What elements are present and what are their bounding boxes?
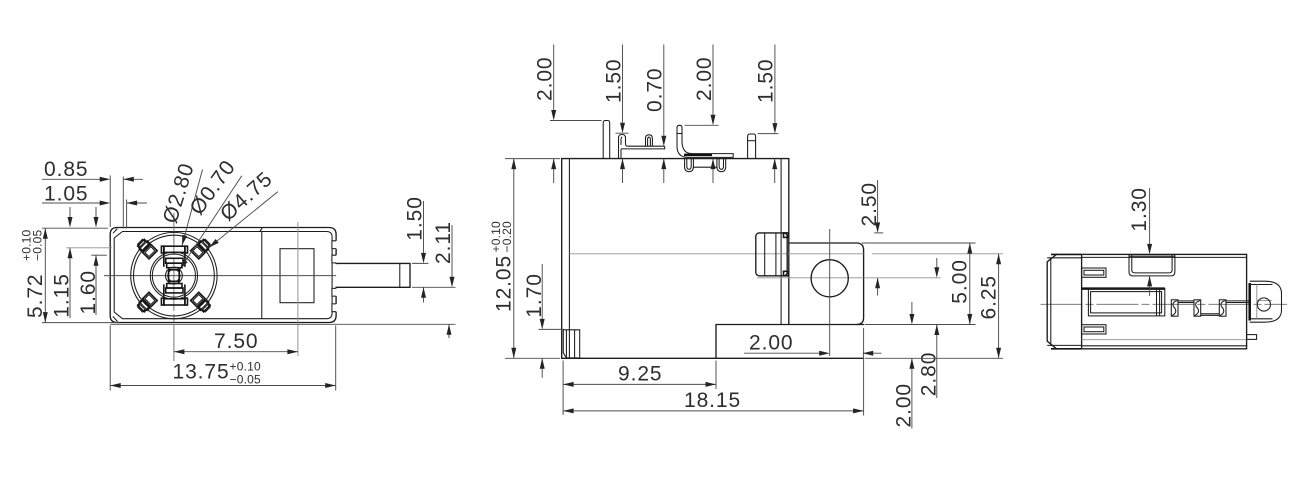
main body view3 [1082, 254, 1247, 348]
svg-text:2.50: 2.50 [858, 182, 881, 226]
dimension 1.50 top-left [602, 45, 628, 184]
dimension 7.50 [174, 222, 298, 356]
svg-text:5.00: 5.00 [949, 259, 972, 303]
bottom edge extension line [110, 323, 455, 325]
rectangular window right section [280, 249, 314, 303]
dimension 1.60 [77, 207, 107, 315]
mounting circle in arm [811, 260, 848, 297]
dimension 1.15 [50, 207, 112, 318]
horizontal centerline view1 [104, 275, 336, 277]
svg-text:−0.05: −0.05 [31, 230, 45, 261]
dimension 5.00 [949, 243, 973, 325]
svg-text:5.72: 5.72 [24, 274, 47, 318]
dimension 1.05 [42, 182, 147, 228]
svg-text:2.00: 2.00 [892, 383, 915, 427]
svg-text:+0.10: +0.10 [230, 360, 261, 374]
side pin (view1) [335, 263, 410, 287]
svg-text:2.11: 2.11 [432, 221, 455, 264]
bottom step [716, 325, 864, 359]
body right edge double [780, 159, 782, 325]
top pin D [748, 134, 756, 159]
dimension 1.50 top-right [755, 45, 779, 184]
body top edge [562, 158, 789, 160]
diagonal tab bottom-left [136, 292, 157, 313]
svg-text:9.25: 9.25 [618, 362, 662, 385]
top pin C with bend [677, 125, 733, 157]
svg-text:−0.20: −0.20 [500, 221, 514, 252]
barrel tip block [1250, 281, 1282, 322]
body outer outline [110, 228, 336, 323]
svg-text:2.00: 2.00 [749, 332, 793, 355]
svg-text:1.50: 1.50 [404, 196, 427, 240]
dimension 2.00 bottom (inside step) [744, 332, 882, 356]
svg-text:7.50: 7.50 [214, 330, 258, 353]
leader dia 0.70 [178, 156, 242, 271]
svg-text:2.00: 2.00 [533, 57, 556, 101]
diagonal tab top-left [136, 238, 157, 259]
arm top extension right [862, 242, 976, 244]
right edge notch B [331, 255, 337, 263]
section divider line [261, 232, 263, 319]
dimension 2.80 [864, 258, 941, 398]
latch tab [756, 233, 789, 276]
top edge seam [260, 228, 263, 232]
horizontal centerline view3 [1041, 303, 1288, 305]
svg-text:2.00: 2.00 [693, 57, 716, 101]
body bottom edge [562, 357, 864, 359]
bent bracket terminal B [619, 135, 665, 159]
middle ring pair [150, 252, 197, 299]
dimension 0.85 [42, 158, 143, 228]
dimension 5.72 +0.10/-0.05 [20, 228, 120, 322]
diagonal tab top-right [191, 238, 212, 259]
dimension 18.15 [563, 328, 864, 416]
body left edge double [561, 159, 563, 359]
svg-text:13.75: 13.75 [173, 361, 230, 384]
dimension 6.25 [978, 254, 1002, 358]
top pin A [603, 121, 610, 159]
bottom contact stack [161, 284, 187, 306]
pin top extension right [872, 253, 1003, 255]
bottom-left foot [563, 330, 579, 358]
top pocket cup (1.30) [1129, 254, 1175, 276]
bottom small tab view3 [1247, 335, 1257, 340]
top-left corner chamfer tick [113, 229, 117, 234]
inner big rectangle [1082, 289, 1165, 316]
svg-text:−0.05: −0.05 [230, 373, 261, 387]
top contact stack [161, 246, 187, 268]
dimension 12.05 +0.10/-0.20 [489, 159, 560, 359]
dimension 2.50 [858, 180, 883, 296]
flat pin top line through body/arm [569, 253, 863, 255]
dimension 9.25 [563, 361, 716, 416]
svg-text:0.70: 0.70 [644, 68, 667, 112]
svg-text:6.25: 6.25 [978, 275, 1001, 319]
body inner outline [114, 232, 332, 319]
svg-text:1.30: 1.30 [1128, 187, 1151, 231]
dimension 0.70 [644, 45, 667, 184]
svg-text:0.85: 0.85 [44, 158, 88, 181]
dimension 2.00 top-right [685, 45, 719, 184]
dimension 1.70 [523, 264, 564, 378]
svg-text:1.05: 1.05 [44, 182, 88, 205]
svg-text:12.05: 12.05 [492, 255, 515, 312]
svg-text:1.50: 1.50 [755, 59, 778, 103]
step extension line right [865, 324, 976, 326]
dimension 2.00 bottom-right [892, 302, 915, 429]
dimension 1.50 (pin width) [404, 196, 456, 302]
left cap flange [1047, 254, 1081, 348]
dimension 2.11 [432, 221, 455, 338]
vertical centerline of circle [173, 213, 175, 361]
spring contact 2 [1194, 300, 1201, 316]
outer circle pair [131, 232, 217, 318]
bottom-left corner chamfer tick [113, 316, 118, 321]
leader dia 4.75 [207, 167, 277, 249]
small rect lower-left [1082, 325, 1106, 334]
right edge notch A [331, 241, 337, 249]
side arm rounded [789, 243, 864, 325]
spring contact 1 [1171, 300, 1178, 316]
svg-text:1.60: 1.60 [77, 270, 100, 314]
svg-text:1.15: 1.15 [50, 273, 73, 317]
dimension 1.30 [1128, 187, 1152, 296]
small rect upper-left [1082, 268, 1106, 277]
right edge notch D [331, 304, 337, 312]
dimension 2.00 top-left [533, 45, 601, 184]
diagonal tab bottom-right [191, 292, 212, 313]
hook feet below edge [685, 159, 726, 172]
flat pin bottom line [757, 277, 864, 279]
svg-text:1.70: 1.70 [523, 273, 546, 317]
center square [169, 270, 180, 282]
center pin circles [166, 267, 183, 284]
spring contact 3 [1219, 300, 1226, 316]
leader dia 2.80 [159, 160, 203, 246]
svg-text:18.15: 18.15 [684, 389, 741, 412]
spring connecting links [1178, 301, 1249, 316]
dimension 13.75 +0.10/-0.05 [110, 326, 336, 391]
bottom edge extension right [865, 357, 1003, 359]
right edge notch C [331, 288, 337, 296]
svg-text:1.50: 1.50 [602, 59, 625, 103]
circle vertical extension line [829, 229, 831, 356]
